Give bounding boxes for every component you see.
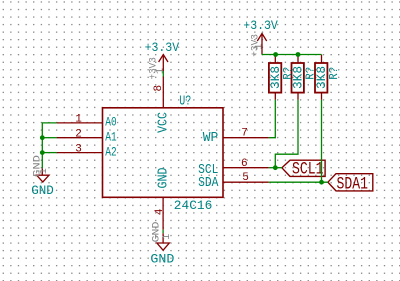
svg-text:7: 7 [241,128,248,140]
svg-text:SDA: SDA [198,176,219,191]
svg-text:8: 8 [153,85,165,92]
svg-text:1: 1 [39,168,50,174]
svg-text:4: 4 [154,208,166,215]
svg-text:VCC: VCC [156,112,171,133]
svg-text:6: 6 [241,158,248,170]
svg-text:GND: GND [150,251,174,266]
svg-text:1: 1 [75,114,82,126]
svg-text:+3.3V: +3.3V [145,40,180,55]
svg-text:3: 3 [75,143,82,155]
svg-text:1: 1 [254,43,266,49]
svg-text:A2: A2 [105,145,116,160]
svg-text:R?: R? [304,67,318,80]
svg-text:SDA1: SDA1 [337,174,369,194]
svg-text:GND: GND [31,183,54,198]
svg-text:U?: U? [179,94,191,110]
svg-text:GND: GND [156,168,171,189]
svg-text:+3.3V: +3.3V [243,18,278,33]
svg-text:2: 2 [75,129,82,141]
svg-text:R?: R? [281,67,295,80]
svg-text:A1: A1 [105,130,117,145]
svg-text:WP: WP [203,131,219,146]
svg-text:SCL1: SCL1 [292,159,324,179]
svg-text:1: 1 [154,68,166,74]
svg-text:24C16: 24C16 [174,198,213,213]
svg-text:1: 1 [162,234,173,240]
svg-text:R?: R? [327,67,341,80]
svg-text:A0: A0 [105,115,116,130]
svg-text:5: 5 [242,172,249,184]
svg-text:GND: GND [152,222,163,243]
